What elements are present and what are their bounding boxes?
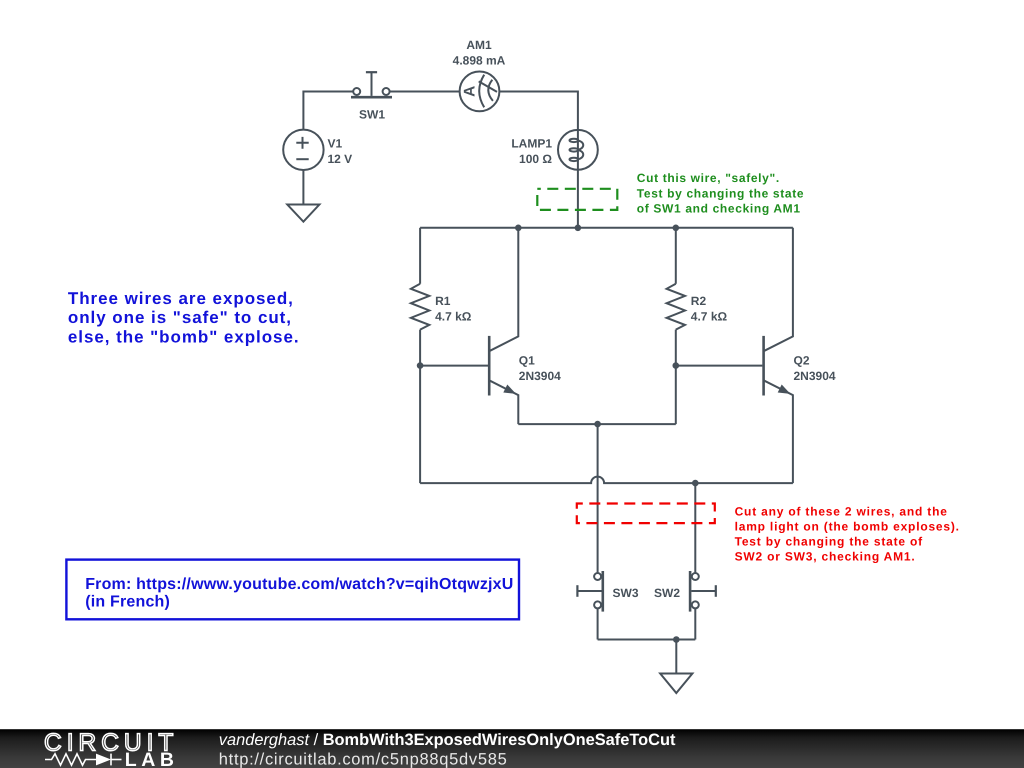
footer bar xyxy=(0,729,1024,768)
wire node to SW2 xyxy=(694,483,696,573)
ground (bottom) xyxy=(660,674,692,694)
svg-text:SW3: SW3 xyxy=(613,586,639,600)
lamp LAMP1 xyxy=(558,130,598,170)
svg-text:lamp light on (the bomb explos: lamp light on (the bomb exploses). xyxy=(735,520,960,534)
svg-text:AM1: AM1 xyxy=(466,38,492,52)
wire right vertical upper xyxy=(675,228,677,284)
svg-text:100 Ω: 100 Ω xyxy=(519,152,552,166)
blue source box xyxy=(66,560,519,620)
svg-text:4.7 kΩ: 4.7 kΩ xyxy=(691,309,728,323)
svg-text:Three wires are exposed,: Three wires are exposed, xyxy=(68,289,294,308)
svg-text:Cut any of these 2 wires, and: Cut any of these 2 wires, and the xyxy=(735,504,948,518)
wire to ground xyxy=(675,640,677,674)
svg-text:V1: V1 xyxy=(328,137,343,151)
svg-text:4.898 mA: 4.898 mA xyxy=(453,53,506,67)
svg-text:2N3904: 2N3904 xyxy=(794,369,836,383)
wire LAMP1 to top rail xyxy=(577,170,579,228)
svg-text:12 V: 12 V xyxy=(328,152,353,166)
wire node to SW3 xyxy=(597,424,599,573)
wire Q1 base xyxy=(420,365,488,367)
svg-text:only one is "safe" to cut,: only one is "safe" to cut, xyxy=(68,308,292,327)
junction node bottom rail xyxy=(692,480,699,487)
ground (V1) xyxy=(287,205,319,222)
junction node emitter line xyxy=(594,421,601,428)
red cut-here box xyxy=(577,504,715,524)
wire V1 top to SW1 xyxy=(303,92,353,130)
svg-text:SW2 or SW3, checking AM1.: SW2 or SW3, checking AM1. xyxy=(735,550,916,564)
svg-text:SW2: SW2 xyxy=(654,586,680,600)
voltage source V1 xyxy=(283,130,323,170)
green cut-here box xyxy=(537,189,617,210)
svg-text:(in French): (in French) xyxy=(85,593,170,610)
svg-text:Test by changing the state of: Test by changing the state of xyxy=(735,535,924,549)
svg-text:LAMP1: LAMP1 xyxy=(511,137,552,151)
svg-text:of SW1 and checking AM1: of SW1 and checking AM1 xyxy=(637,202,801,216)
junction node ground link xyxy=(673,636,680,643)
svg-text:Q2: Q2 xyxy=(794,354,810,368)
blue annotation text xyxy=(68,289,300,347)
svg-text:else, the "bomb" explose.: else, the "bomb" explose. xyxy=(68,327,300,346)
transistor Q2 xyxy=(764,228,793,483)
wire Q1 emitter to R2 bottom xyxy=(518,423,676,425)
switch SW1 xyxy=(351,72,392,97)
transistor Q1 xyxy=(489,228,518,424)
resistor R1 xyxy=(411,284,429,330)
wire AM1 to LAMP1 xyxy=(499,92,578,130)
svg-text:4.7 kΩ: 4.7 kΩ xyxy=(435,309,472,323)
logo squiggle xyxy=(45,754,122,766)
junction node top rail right xyxy=(673,225,680,232)
wire left vertical lower xyxy=(419,330,421,484)
wire right vertical lower xyxy=(675,330,677,425)
wire bottom link xyxy=(598,639,696,641)
svg-text:LAB: LAB xyxy=(125,749,179,768)
switch SW3 xyxy=(577,571,602,612)
svg-text:Test by changing the state: Test by changing the state xyxy=(637,186,804,200)
switch SW2 xyxy=(690,571,716,612)
junction node top rail left xyxy=(515,225,522,232)
svg-text:SW1: SW1 xyxy=(359,107,385,121)
wire bottom rail with hop xyxy=(420,477,793,483)
svg-text:From: https://www.youtube.com/: From: https://www.youtube.com/watch?v=qi… xyxy=(85,576,513,593)
junction node top rail lamp xyxy=(575,225,582,232)
red annotation text xyxy=(735,504,960,563)
junction node R1/Q1 base xyxy=(417,362,424,369)
wire SW2 bottom xyxy=(694,608,696,639)
wire V1 to ground xyxy=(302,170,304,205)
wire left vertical upper xyxy=(419,228,421,284)
svg-text:vanderghast / BombWith3Exposed: vanderghast / BombWith3ExposedWiresOnlyO… xyxy=(219,731,676,749)
svg-text:http://circuitlab.com/c5np88q5: http://circuitlab.com/c5np88q5dv585 xyxy=(219,750,508,768)
svg-text:R1: R1 xyxy=(435,294,451,308)
wire SW3 bottom xyxy=(597,608,599,639)
resistor R2 xyxy=(667,284,685,330)
wire Q2 base xyxy=(676,365,763,367)
junction node R2/Q2 base xyxy=(673,362,680,369)
wire SW1 to AM1 xyxy=(390,91,460,93)
svg-text:Q1: Q1 xyxy=(519,354,535,368)
svg-text:2N3904: 2N3904 xyxy=(519,369,561,383)
green annotation text xyxy=(637,171,804,216)
svg-text:A: A xyxy=(462,86,479,97)
svg-text:Cut this wire, "safely".: Cut this wire, "safely". xyxy=(637,171,780,185)
svg-text:R2: R2 xyxy=(691,294,707,308)
blue source text xyxy=(85,576,513,610)
wire top rail xyxy=(420,227,793,229)
ammeter AM1 xyxy=(460,72,500,112)
